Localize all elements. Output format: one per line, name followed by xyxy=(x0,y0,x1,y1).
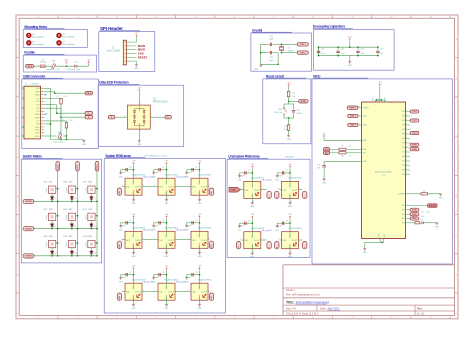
svg-text:K23: K23 xyxy=(88,209,91,211)
svg-text:LO1: LO1 xyxy=(211,244,213,247)
svg-text:MountingHole: MountingHole xyxy=(62,43,75,46)
svg-text:XTAL2: XTAL2 xyxy=(350,124,356,127)
svg-text:polyfuse_black: polyfuse_black xyxy=(53,142,65,144)
svg-text:GND: GND xyxy=(197,256,202,258)
svg-text:22: 22 xyxy=(349,156,351,158)
svg-text:1_5mm: 1_5mm xyxy=(85,242,87,248)
svg-text:GND: GND xyxy=(164,256,169,258)
svg-text:DIN: DIN xyxy=(192,292,196,294)
svg-text:GND: GND xyxy=(137,144,142,146)
svg-text:CC2: CC2 xyxy=(36,121,39,123)
svg-text:4: 4 xyxy=(121,185,122,187)
svg-text:K33: K33 xyxy=(88,236,91,238)
svg-text:LIN2: LIN2 xyxy=(119,296,121,299)
svg-text:ROW2: ROW2 xyxy=(25,256,32,258)
svg-text:R8: R8 xyxy=(341,156,343,158)
svg-text:VSS: VSS xyxy=(290,245,292,248)
svg-text:WS2812B-MINI-E: WS2812B-MINI-E xyxy=(198,228,212,230)
svg-text:1_5mm: 1_5mm xyxy=(46,242,48,248)
svg-text:K11: K11 xyxy=(49,182,52,184)
svg-text:VSS: VSS xyxy=(133,297,135,300)
svg-text:4: 4 xyxy=(278,188,279,190)
svg-text:PB4: PB4 xyxy=(402,129,405,131)
svg-text:PD3: PD3 xyxy=(402,205,405,207)
svg-text:500mA: 500mA xyxy=(40,61,47,64)
svg-text:C1: C1 xyxy=(195,220,197,222)
svg-text:D4: D4 xyxy=(74,62,76,64)
svg-text:DOUT: DOUT xyxy=(135,187,141,189)
svg-text:1_5mm: 1_5mm xyxy=(46,187,48,193)
svg-text:Sheet: /: Sheet: / xyxy=(286,288,296,292)
svg-text:Id: 1/1: Id: 1/1 xyxy=(417,312,425,316)
svg-text:KiCad E.D.A. kicad (5.1.9)-1: KiCad E.D.A. kicad (5.1.9)-1 xyxy=(286,312,319,316)
svg-text:WS2812B-MINI-E: WS2812B-MINI-E xyxy=(198,175,212,177)
svg-text:DOUT: DOUT xyxy=(254,240,260,242)
svg-text:GND: GND xyxy=(250,256,255,258)
svg-text:5.1k: 5.1k xyxy=(69,120,72,122)
svg-text:VSS: VSS xyxy=(166,297,168,300)
svg-text:C12: C12 xyxy=(296,110,299,112)
svg-text:ROW2: ROW2 xyxy=(412,145,417,147)
svg-text:GND: GND xyxy=(348,65,353,67)
svg-text:DIN: DIN xyxy=(245,240,249,242)
svg-text:Reset circuit: Reset circuit xyxy=(266,74,285,78)
svg-text:D+: D+ xyxy=(325,153,327,155)
svg-text:WS2812B-MINI-E: WS2812B-MINI-E xyxy=(288,178,302,180)
svg-text:SW3: SW3 xyxy=(63,182,67,184)
svg-text:Fusible: Fusible xyxy=(24,51,35,55)
svg-text:C17: C17 xyxy=(269,36,272,38)
svg-text:VSS: VSS xyxy=(199,297,201,300)
svg-text:GND: GND xyxy=(288,256,293,258)
svg-text:D+: D+ xyxy=(88,113,90,115)
svg-text:PB2: PB2 xyxy=(402,120,405,122)
svg-text:Switch Matrix: Switch Matrix xyxy=(23,155,43,159)
svg-text:PD0: PD0 xyxy=(402,156,405,158)
svg-text:1_5mm: 1_5mm xyxy=(66,187,68,193)
svg-text:Decoupling capacitors: Decoupling capacitors xyxy=(313,25,346,29)
svg-text:FB2: FB2 xyxy=(58,132,61,134)
svg-text:PD7: PD7 xyxy=(402,222,405,224)
svg-text:LO0: LO0 xyxy=(211,191,213,194)
svg-text:K31: K31 xyxy=(49,236,52,238)
svg-text:RESET: RESET xyxy=(350,107,357,109)
svg-text:R2: R2 xyxy=(62,120,64,122)
svg-text:Title:: Title: xyxy=(286,300,295,304)
svg-text:PD1: PD1 xyxy=(402,161,405,163)
svg-text:GND: GND xyxy=(164,203,169,205)
svg-text:2: 2 xyxy=(128,45,129,47)
svg-text:1_5mm: 1_5mm xyxy=(85,214,87,220)
svg-text:PD2: PD2 xyxy=(402,165,405,167)
svg-text:FB1: FB1 xyxy=(52,61,55,63)
svg-text:1_5mm: 1_5mm xyxy=(46,214,48,220)
svg-text:PB5: PB5 xyxy=(402,134,405,136)
svg-text:G: G xyxy=(455,275,457,277)
svg-text:HWB/PE2: HWB/PE2 xyxy=(398,193,405,195)
svg-text:C1: C1 xyxy=(129,220,131,222)
svg-text:PD4: PD4 xyxy=(402,209,405,211)
svg-text:SW8: SW8 xyxy=(43,236,47,238)
svg-text:D+: D+ xyxy=(167,117,169,119)
svg-text:R4: R4 xyxy=(285,126,287,128)
svg-text:SW1: SW1 xyxy=(278,109,282,111)
svg-text:DOUT: DOUT xyxy=(201,240,207,242)
svg-text:DP2: DP2 xyxy=(36,111,39,113)
svg-text:Rev:: Rev: xyxy=(417,307,423,311)
svg-text:VSS: VSS xyxy=(133,192,135,195)
svg-text:VCC: VCC xyxy=(64,59,69,61)
svg-text:LED: LED xyxy=(231,190,236,192)
svg-text:4: 4 xyxy=(140,131,141,133)
svg-text:COL0: COL0 xyxy=(57,164,59,170)
svg-text:C1: C1 xyxy=(162,167,164,169)
svg-text:ROW0: ROW0 xyxy=(25,201,32,203)
svg-text:WS2812B-MINI-E: WS2812B-MINI-E xyxy=(288,228,302,230)
svg-text:42: 42 xyxy=(358,115,360,117)
svg-text:K32: K32 xyxy=(69,236,72,238)
svg-text:GND: GND xyxy=(197,203,202,205)
svg-text:SHLD: SHLD xyxy=(35,127,40,129)
svg-text:USB Connector: USB Connector xyxy=(23,74,46,78)
svg-text:MOSI: MOSI xyxy=(412,214,417,216)
svg-text:Date:: Date: xyxy=(320,307,326,311)
svg-text:D7: D7 xyxy=(94,198,96,200)
svg-text:PD4: PD4 xyxy=(402,174,405,176)
svg-text:4: 4 xyxy=(121,238,122,240)
svg-text:polyfuse_0_75A: polyfuse_0_75A xyxy=(47,68,61,71)
svg-text:ROW1: ROW1 xyxy=(412,149,417,151)
svg-text:SBU2: SBU2 xyxy=(35,95,39,97)
svg-text:SHLD: SHLD xyxy=(35,133,40,135)
svg-text:GND: GND xyxy=(164,308,169,310)
svg-text:10k: 10k xyxy=(284,129,287,131)
svg-text:DOUT: DOUT xyxy=(292,240,298,242)
svg-text:MountingHole: MountingHole xyxy=(32,36,45,39)
svg-text:C14: C14 xyxy=(340,49,343,51)
svg-text:CC1: CC1 xyxy=(36,98,39,100)
svg-text:SW10: SW10 xyxy=(83,236,88,238)
svg-text:C1: C1 xyxy=(286,220,288,222)
svg-text:PB1: PB1 xyxy=(402,116,405,118)
svg-text:1_5mm: 1_5mm xyxy=(66,214,68,220)
svg-text:C13: C13 xyxy=(321,49,324,51)
svg-text:SW_Push: SW_Push xyxy=(274,112,282,114)
svg-text:VSS: VSS xyxy=(166,192,168,195)
svg-text:C1: C1 xyxy=(129,167,131,169)
svg-text:GND: GND xyxy=(82,144,87,146)
svg-text:RXLED: RXLED xyxy=(429,206,436,208)
svg-text:4: 4 xyxy=(278,238,279,240)
svg-text:LED_ug_D11: LED_ug_D11 xyxy=(262,230,272,232)
svg-text:D_Schottky_Small: D_Schottky_Small xyxy=(66,68,81,71)
svg-text:DIN: DIN xyxy=(126,187,130,189)
svg-text:PC6: PC6 xyxy=(402,147,405,149)
svg-text:VBUS: VBUS xyxy=(27,66,33,68)
svg-text:Switch RGB array: Switch RGB array xyxy=(105,154,131,158)
svg-text:DIN: DIN xyxy=(192,240,196,242)
svg-text:SBU1: SBU1 xyxy=(35,114,39,116)
svg-text:RESET: RESET xyxy=(300,101,307,103)
svg-text:DP1: DP1 xyxy=(36,104,39,106)
svg-text:R7: R7 xyxy=(341,145,343,147)
svg-text:DIN: DIN xyxy=(159,187,163,189)
svg-text:SPI Header: SPI Header xyxy=(100,26,123,31)
svg-text:VSS: VSS xyxy=(199,245,201,248)
svg-text:PD5: PD5 xyxy=(402,214,405,216)
svg-text:SHLD: SHLD xyxy=(35,130,40,132)
svg-text:C1: C1 xyxy=(195,272,197,274)
svg-text:DOUT: DOUT xyxy=(168,240,174,242)
svg-text:VBUS: VBUS xyxy=(86,93,92,95)
svg-text:COL2: COL2 xyxy=(97,164,99,170)
svg-text:K21: K21 xyxy=(49,209,52,211)
svg-text:C1: C1 xyxy=(162,220,164,222)
svg-text:D9: D9 xyxy=(74,225,76,227)
svg-text:SW5: SW5 xyxy=(43,209,47,211)
svg-text:VSS: VSS xyxy=(133,245,135,248)
svg-text:Size: A4: Size: A4 xyxy=(286,307,296,311)
svg-text:VSS: VSS xyxy=(252,245,254,248)
svg-text:DIN: DIN xyxy=(126,240,130,242)
svg-text:VSS: VSS xyxy=(166,245,168,248)
svg-text:PB6: PB6 xyxy=(402,138,405,140)
svg-text:ATmega32U4-MU: ATmega32U4-MU xyxy=(375,171,392,174)
svg-text:DOUT: DOUT xyxy=(254,190,260,192)
svg-text:3x3-another-macropad: 3x3-another-macropad xyxy=(296,300,330,304)
svg-text:GND: GND xyxy=(438,198,443,200)
svg-text:(WS2812B): (WS2812B) xyxy=(285,156,294,158)
svg-text:1_5mm: 1_5mm xyxy=(85,187,87,193)
svg-text:42: 42 xyxy=(358,124,360,126)
svg-text:J1: J1 xyxy=(25,84,27,86)
svg-text:GND: GND xyxy=(254,69,259,71)
svg-text:COL1: COL1 xyxy=(77,164,79,170)
svg-text:VSS: VSS xyxy=(290,195,292,198)
svg-text:C15: C15 xyxy=(360,49,363,51)
svg-text:DOUT: DOUT xyxy=(201,187,207,189)
svg-text:C18: C18 xyxy=(269,57,272,59)
svg-text:DIN: DIN xyxy=(245,190,249,192)
svg-text:DIN: DIN xyxy=(159,240,163,242)
svg-text:VSS: VSS xyxy=(252,195,254,198)
svg-text:R6: R6 xyxy=(422,212,424,214)
svg-text:K12: K12 xyxy=(69,182,72,184)
svg-text:MountingHole: MountingHole xyxy=(62,36,75,39)
svg-text:USB4105: USB4105 xyxy=(31,84,39,86)
svg-text:16MHz: 16MHz xyxy=(288,51,294,53)
svg-text:LED_ug_D10: LED_ug_D10 xyxy=(262,180,272,182)
svg-text:ROW0: ROW0 xyxy=(412,210,417,212)
svg-text:Crystal: Crystal xyxy=(252,28,262,32)
svg-text:Mounting Holes: Mounting Holes xyxy=(24,25,47,29)
svg-text:C1: C1 xyxy=(248,220,250,222)
svg-text:COL1: COL1 xyxy=(412,120,417,122)
svg-text:DIN: DIN xyxy=(283,240,287,242)
svg-text:100nF: 100nF xyxy=(296,113,302,115)
svg-text:1_5mm: 1_5mm xyxy=(66,242,68,248)
svg-text:SW9: SW9 xyxy=(63,236,67,238)
svg-text:C1: C1 xyxy=(248,170,250,172)
svg-text:SW4: SW4 xyxy=(83,182,87,184)
svg-text:PC7: PC7 xyxy=(402,152,405,154)
svg-text:3: 3 xyxy=(140,103,141,105)
svg-text:DOUT: DOUT xyxy=(135,292,141,294)
svg-text:C1: C1 xyxy=(286,170,288,172)
svg-text:COL2: COL2 xyxy=(412,133,417,135)
svg-text:D13: D13 xyxy=(94,253,97,255)
svg-text:DIN: DIN xyxy=(126,292,130,294)
svg-text:C1: C1 xyxy=(162,272,164,274)
svg-text:(WS2812B-Mini rewire mount): (WS2812B-Mini rewire mount) xyxy=(145,155,168,158)
svg-text:GND: GND xyxy=(286,139,291,141)
svg-text:PB3: PB3 xyxy=(402,125,405,127)
svg-text:File: a43-macropad-pcb.sch: File: a43-macropad-pcb.sch xyxy=(286,292,320,296)
svg-text:GND: GND xyxy=(131,256,136,258)
svg-text:VSS: VSS xyxy=(199,192,201,195)
svg-text:D5: D5 xyxy=(54,198,56,200)
svg-text:R5: R5 xyxy=(423,191,425,193)
svg-text:G: G xyxy=(17,275,19,277)
svg-text:4: 4 xyxy=(121,290,122,292)
svg-text:R3: R3 xyxy=(292,93,294,95)
svg-text:RESET: RESET xyxy=(138,55,148,59)
svg-text:PB0: PB0 xyxy=(402,111,405,113)
svg-text:GND: GND xyxy=(322,183,327,185)
svg-text:K22: K22 xyxy=(69,209,72,211)
svg-text:PD6: PD6 xyxy=(402,218,405,220)
svg-text:GND: GND xyxy=(131,203,136,205)
svg-text:GND: GND xyxy=(134,68,139,70)
svg-text:220: 220 xyxy=(427,212,430,214)
svg-text:LO2: LO2 xyxy=(211,296,213,299)
svg-text:Data ESD Protection: Data ESD Protection xyxy=(99,81,128,85)
svg-text:COL0: COL0 xyxy=(412,111,417,113)
svg-text:GND: GND xyxy=(435,227,440,229)
svg-text:C16: C16 xyxy=(380,49,383,51)
svg-text:D11: D11 xyxy=(54,253,57,255)
svg-text:LIN0: LIN0 xyxy=(119,191,121,194)
svg-text:XTAL1: XTAL1 xyxy=(300,43,306,46)
svg-text:DIN: DIN xyxy=(192,187,196,189)
svg-text:LIN1: LIN1 xyxy=(119,244,121,247)
svg-text:DIN: DIN xyxy=(283,190,287,192)
svg-text:D1: D1 xyxy=(421,220,423,222)
svg-text:DOUT: DOUT xyxy=(201,292,207,294)
svg-text:D6: D6 xyxy=(74,198,76,200)
svg-text:K13: K13 xyxy=(88,182,91,184)
svg-text:22: 22 xyxy=(349,145,351,147)
svg-text:April 2021: April 2021 xyxy=(328,307,340,311)
svg-text:GND: GND xyxy=(131,308,136,310)
svg-text:GND: GND xyxy=(250,206,255,208)
svg-text:3: 3 xyxy=(128,48,129,50)
svg-text:D12: D12 xyxy=(74,253,77,255)
svg-text:C10: C10 xyxy=(317,165,320,167)
svg-text:UDP: UDP xyxy=(362,153,365,155)
svg-text:10k: 10k xyxy=(292,96,295,98)
svg-text:SW2: SW2 xyxy=(43,182,47,184)
svg-text:DN1: DN1 xyxy=(36,108,39,110)
svg-text:42: 42 xyxy=(358,106,360,108)
svg-text:DOUT: DOUT xyxy=(168,292,174,294)
svg-text:XTAL1: XTAL1 xyxy=(350,115,356,118)
svg-text:MCU: MCU xyxy=(313,74,321,78)
svg-text:C1: C1 xyxy=(195,167,197,169)
svg-text:PD3: PD3 xyxy=(402,170,405,172)
svg-text:DOUT: DOUT xyxy=(135,240,141,242)
svg-text:MountingHole: MountingHole xyxy=(32,43,45,46)
svg-text:GND: GND xyxy=(288,206,293,208)
svg-text:6: 6 xyxy=(128,60,129,62)
svg-text:D10: D10 xyxy=(94,225,97,227)
svg-text:WS2812B-MINI-E: WS2812B-MINI-E xyxy=(198,280,212,282)
svg-text:Underglow RGB array: Underglow RGB array xyxy=(228,155,260,159)
svg-text:1: 1 xyxy=(128,41,129,43)
svg-text:SHLD: SHLD xyxy=(35,136,40,138)
svg-text:C1: C1 xyxy=(129,272,131,274)
svg-text:PRTR5V0U2X: PRTR5V0U2X xyxy=(153,102,168,104)
svg-text:5.1k: 5.1k xyxy=(64,96,67,98)
svg-text:R1: R1 xyxy=(57,96,59,98)
svg-text:D8: D8 xyxy=(54,225,56,227)
svg-text:4: 4 xyxy=(128,52,129,54)
svg-text:~RESET: ~RESET xyxy=(362,107,368,109)
svg-text:ROW1: ROW1 xyxy=(25,228,32,230)
svg-text:Y1: Y1 xyxy=(288,47,290,49)
svg-text:DOUT: DOUT xyxy=(168,187,174,189)
svg-text:5: 5 xyxy=(128,56,129,58)
svg-text:DOUT: DOUT xyxy=(292,190,298,192)
svg-text:XTAL2: XTAL2 xyxy=(300,51,306,54)
svg-text:PB7: PB7 xyxy=(402,143,405,145)
svg-text:Conn_01x06: Conn_01x06 xyxy=(106,50,120,53)
svg-text:DN2: DN2 xyxy=(36,101,39,103)
svg-text:SW6: SW6 xyxy=(63,209,67,211)
svg-text:VCC: VCC xyxy=(348,36,353,38)
svg-text:SW7: SW7 xyxy=(83,209,87,211)
svg-text:GND: GND xyxy=(197,308,202,310)
svg-text:MISO: MISO xyxy=(412,218,417,220)
svg-text:U1: U1 xyxy=(238,246,240,248)
svg-text:GND: GND xyxy=(363,252,368,254)
svg-text:DIN: DIN xyxy=(159,292,163,294)
